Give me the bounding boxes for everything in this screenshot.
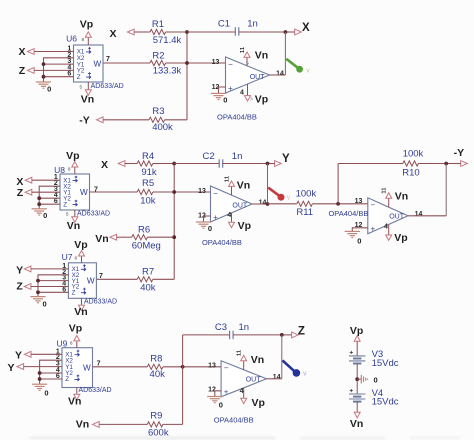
svg-text:Vp: Vp	[69, 322, 82, 334]
power symbol Vn (U8 pin 5)	[66, 210, 80, 232]
svg-text:Vn: Vn	[251, 354, 264, 366]
svg-text:600k: 600k	[148, 427, 169, 438]
svg-text:14: 14	[273, 374, 281, 381]
junction output-X node	[284, 30, 288, 34]
wire summing bus (integrator 2)	[173, 164, 175, 280]
svg-text:W: W	[87, 276, 95, 285]
svg-text:15Vdc: 15Vdc	[372, 397, 399, 408]
svg-text:Vp: Vp	[350, 325, 363, 337]
svg-text:OPA404/BB: OPA404/BB	[214, 415, 254, 424]
junction U7 pin3-gnd	[36, 279, 40, 283]
wire Vn port to R6	[117, 236, 132, 238]
svg-text:R2: R2	[152, 51, 164, 62]
svg-text:0: 0	[44, 389, 48, 398]
svg-text:7: 7	[99, 273, 103, 280]
port Y (integrator 2 output)	[275, 153, 290, 166]
ground 0 (U1 pin 12)	[211, 93, 227, 104]
svg-text:Vn: Vn	[67, 220, 80, 232]
power symbol Vp (U4 pin 4)	[240, 388, 265, 409]
svg-text:13: 13	[208, 362, 216, 369]
wire R1 to summing bus	[166, 31, 187, 33]
svg-text:Vn: Vn	[95, 233, 108, 245]
svg-text:Vp: Vp	[255, 93, 268, 105]
power symbol Vp (U7 pin 8)	[74, 239, 87, 263]
junction R8/bus node	[181, 365, 185, 369]
junction R1/C1 node	[185, 30, 189, 34]
svg-text:OUT: OUT	[389, 214, 405, 221]
wire R7 to summing bus 2	[153, 278, 174, 280]
svg-text:91k: 91k	[141, 167, 157, 178]
power symbol Vp (U6 pin 8)	[80, 18, 93, 45]
svg-text:0: 0	[357, 236, 361, 245]
ground 0 (U7 inputs)	[30, 297, 46, 309]
resistor R1 571.4k	[150, 19, 182, 46]
svg-text:−: −	[370, 201, 375, 210]
port Z (integrator 3 output)	[292, 326, 305, 338]
svg-text:V+: V+	[245, 59, 250, 65]
svg-text:U6: U6	[66, 34, 77, 44]
wire summing bus (integrator 3)	[182, 335, 184, 425]
wire bus to C3	[183, 334, 230, 336]
wire Y node to R11	[268, 203, 297, 205]
junction U6 pin6-gnd	[42, 75, 46, 79]
svg-text:R7: R7	[142, 267, 154, 278]
svg-text:C2: C2	[203, 151, 215, 162]
port Z (U8 Y1 input)	[17, 187, 32, 199]
wire U8 ground net (pins 2,4,6)	[39, 186, 60, 208]
svg-text:C1: C1	[218, 18, 230, 29]
voltage probe (X, green)	[286, 59, 310, 75]
svg-text:60Meg: 60Meg	[132, 240, 161, 251]
ground 0 (U2 pin 12)	[196, 222, 212, 233]
svg-text:AD633/AD: AD633/AD	[84, 298, 117, 305]
capacitor C3 1n	[215, 322, 249, 339]
wire op-amp U4 output to node	[267, 378, 282, 380]
wire output node to -Y port	[446, 163, 461, 165]
op-amp U3 OPA404/BB (inverter)	[328, 198, 422, 234]
resistor R3 400k	[149, 106, 173, 133]
wire op-amp U4 pin 12 to ground	[215, 391, 221, 397]
svg-text:Vn: Vn	[76, 418, 89, 430]
svg-text:Vp: Vp	[74, 239, 87, 251]
resistor R5 10k	[137, 178, 156, 206]
svg-text:R4: R4	[142, 151, 154, 162]
page artifact smudge	[30, 437, 460, 439]
wire Vp to V3	[356, 341, 358, 356]
junction U9 pin4-gnd	[38, 371, 42, 375]
power symbol Vp (U3 pin 4)	[384, 224, 408, 244]
svg-text:Vp: Vp	[80, 18, 93, 30]
svg-text:40k: 40k	[150, 369, 166, 380]
svg-text:R5: R5	[142, 178, 154, 189]
wire C2 to Y output node	[223, 163, 268, 165]
op-amp U1 OPA404/BB (integrator 1)	[212, 57, 284, 122]
power symbol Vn (U7 pin 5)	[74, 298, 87, 318]
wire output node to X port	[285, 31, 294, 33]
port Y (U9 X1 input)	[15, 349, 31, 361]
power symbol Vn (supply)	[350, 412, 363, 430]
wire R11 to op-amp U3 pin 13	[312, 203, 367, 205]
svg-text:Z: Z	[63, 201, 67, 208]
svg-text:Vn: Vn	[81, 93, 94, 105]
port Vn (to R9)	[76, 418, 99, 430]
ground 0 (supply mid, rotated)	[361, 375, 377, 385]
svg-text:R9: R9	[150, 411, 162, 422]
wire op-amp U1 output vertical	[284, 32, 286, 75]
op-amp U2 OPA404/BB (integrator 2)	[198, 186, 266, 247]
svg-text:AD633/AD: AD633/AD	[91, 83, 124, 90]
power symbol Vn (U4 pin 11)	[237, 349, 265, 370]
svg-text:−: −	[228, 60, 233, 69]
power symbol Vn (U2 pin 11)	[225, 175, 251, 195]
wire V3 to mid node	[356, 364, 358, 395]
svg-text:−: −	[213, 189, 218, 198]
svg-text:Z: Z	[19, 65, 26, 77]
wire Z port to U6 pin 4	[34, 69, 73, 71]
wire X port to R4	[125, 163, 137, 165]
svg-text:OUT: OUT	[250, 74, 266, 81]
wire Y port to U7 pin 1	[31, 268, 69, 270]
svg-text:133.3k: 133.3k	[153, 66, 182, 77]
ground 0 (U3 pin 12)	[345, 231, 362, 245]
svg-text:13: 13	[212, 59, 220, 66]
junction C3/Z node	[280, 333, 284, 337]
wire Y port to U9 pin 3	[24, 366, 62, 368]
power symbol Vn (U9 pin 5)	[68, 388, 81, 408]
multiplier U8	[54, 165, 110, 217]
power symbol Vp (supply)	[350, 325, 363, 341]
svg-text:R11: R11	[296, 207, 313, 218]
battery V4 15Vdc	[349, 388, 399, 408]
svg-text:R6: R6	[138, 224, 150, 235]
voltage probe (Y, red)	[268, 188, 291, 202]
multiplier U9	[56, 339, 112, 395]
wire Vn port to R9	[99, 423, 147, 425]
op-amp U4 OPA404/BB (integrator 3)	[208, 361, 281, 425]
svg-text:Z: Z	[298, 326, 305, 338]
svg-text:Vn: Vn	[237, 180, 250, 192]
svg-text:Z: Z	[65, 376, 69, 383]
svg-text:Y: Y	[16, 264, 23, 276]
wire X port to R1	[134, 31, 150, 33]
wire Z port to U8 pin 3	[32, 191, 60, 193]
wire R2 to op-amp U1 pin 13	[166, 62, 226, 64]
svg-text:14: 14	[259, 199, 267, 206]
svg-text:0: 0	[47, 85, 51, 94]
svg-text:0: 0	[208, 224, 212, 233]
svg-text:1n: 1n	[239, 322, 250, 333]
wire mid node to ground	[357, 378, 361, 380]
svg-text:+: +	[224, 388, 229, 397]
svg-text:Vp: Vp	[251, 397, 264, 409]
svg-text:Vp: Vp	[66, 150, 79, 162]
svg-text:−: −	[224, 364, 229, 373]
junction U9 pin6-gnd	[38, 377, 42, 381]
svg-text:11: 11	[381, 187, 387, 194]
svg-text:AD633/AD: AD633/AD	[77, 211, 110, 218]
svg-text:U9: U9	[56, 339, 67, 349]
svg-text:X: X	[109, 28, 116, 40]
junction U8 pin4-gnd	[37, 196, 41, 200]
port X (to R4)	[101, 159, 125, 171]
svg-text:10k: 10k	[140, 195, 156, 206]
svg-text:14: 14	[276, 70, 284, 77]
svg-text:13: 13	[198, 188, 206, 195]
port Y (U9 Y1 input)	[7, 362, 23, 374]
power symbol Vn (U6 pin 5)	[79, 82, 94, 105]
multiplier U7	[62, 252, 118, 305]
svg-text:Y: Y	[7, 362, 14, 374]
svg-text:Z: Z	[72, 290, 76, 297]
svg-text:Vn: Vn	[350, 418, 363, 430]
junction -Y node	[444, 162, 448, 166]
wire U7 W output to R7	[96, 278, 137, 280]
wire R5 to op-amp U2 pin 13	[153, 191, 211, 193]
wire op-amp U2 pin 12 to ground	[204, 216, 211, 222]
resistor R6 60Meg	[132, 224, 161, 251]
svg-text:W: W	[80, 188, 88, 197]
wire Y port to U9 pin 1	[31, 353, 62, 355]
wire R4 to summing bus 2	[153, 163, 174, 165]
svg-text:0: 0	[43, 211, 47, 220]
wire op-amp U3 output vertical	[445, 164, 447, 216]
svg-text:Vn: Vn	[395, 190, 408, 202]
svg-text:4: 4	[240, 90, 244, 97]
wire bus to C1	[187, 31, 235, 33]
svg-text:OUT: OUT	[232, 203, 248, 210]
wire output node to Z port	[282, 334, 292, 336]
svg-text:Z: Z	[16, 281, 23, 293]
svg-text:100k: 100k	[403, 148, 424, 159]
svg-text:C3: C3	[215, 322, 227, 333]
svg-text:Y: Y	[282, 153, 290, 165]
power symbol Vp (U9 pin 8)	[69, 322, 82, 347]
power symbol Vp (U8 pin 8)	[66, 150, 79, 174]
svg-text:14: 14	[415, 211, 423, 218]
port Z (U7 Y2 input)	[16, 281, 31, 293]
svg-text:7: 7	[106, 56, 110, 63]
svg-text:13: 13	[355, 198, 363, 205]
power symbol Vn (U1 pin 11)	[240, 46, 268, 66]
svg-text:Vn: Vn	[74, 306, 87, 318]
svg-text:1n: 1n	[232, 151, 243, 162]
wire op-amp U2 output vertical	[267, 164, 269, 205]
svg-text:W: W	[83, 363, 91, 372]
svg-text:15Vdc: 15Vdc	[372, 358, 399, 369]
svg-text:11: 11	[225, 175, 231, 182]
svg-text:Vp: Vp	[238, 220, 251, 232]
power symbol Vp (U2 pin 4)	[227, 212, 251, 232]
wire op-amp U3 output to node	[408, 215, 446, 217]
wire R3 to summing bus	[165, 119, 187, 121]
wire op-amp U1 output to node	[270, 74, 286, 76]
wire C3 to Z output node	[233, 334, 282, 336]
svg-text:11: 11	[237, 349, 243, 356]
port -Y (inverter output)	[454, 147, 468, 166]
ground 0 (U4 pin 12)	[207, 397, 223, 410]
svg-text:OPA404/BB: OPA404/BB	[328, 209, 368, 218]
svg-text:400k: 400k	[152, 122, 173, 133]
svg-text:X: X	[101, 159, 108, 171]
port Z (U6 Y2 input)	[19, 65, 34, 77]
capacitor C2 1n	[203, 151, 243, 168]
svg-text:11: 11	[240, 46, 246, 53]
resistor R10 100k	[402, 148, 423, 178]
svg-text:0: 0	[219, 401, 223, 410]
wire op-amp U1 pin 12 to ground	[219, 87, 226, 93]
wire U8 W output to R5	[90, 191, 138, 193]
capacitor C1 1n	[218, 18, 258, 35]
svg-text:Vn: Vn	[255, 49, 268, 61]
wire X port to U6 pin 1	[34, 51, 73, 53]
power symbol Vp (U1 pin 4)	[240, 84, 268, 105]
svg-text:X: X	[18, 46, 25, 58]
svg-text:U7: U7	[62, 252, 73, 262]
wire U9 W output to R8	[93, 366, 148, 368]
svg-text:R1: R1	[152, 19, 164, 30]
junction U8 pin6-gnd	[37, 202, 41, 206]
svg-text:40k: 40k	[140, 282, 156, 293]
svg-text:R3: R3	[152, 106, 164, 117]
resistor R7 40k	[137, 267, 156, 294]
port -Y (to R3)	[79, 115, 103, 127]
junction C2/Y node	[266, 162, 270, 166]
svg-text:X: X	[302, 22, 310, 34]
svg-text:OPA404/BB: OPA404/BB	[217, 113, 257, 122]
wire R6 to summing bus 2	[147, 236, 174, 238]
svg-text:Z: Z	[77, 74, 81, 81]
wire X port to U8 pin 1	[32, 179, 60, 181]
svg-text:0: 0	[374, 375, 378, 384]
svg-text:W: W	[94, 59, 102, 68]
svg-text:R10: R10	[402, 168, 419, 179]
wire Z port to U7 pin 4	[31, 286, 69, 288]
junction R4/C2 node	[172, 162, 176, 166]
wire U9 ground net (pins 2,4,6)	[40, 360, 62, 384]
junction R5/bus node	[172, 190, 176, 194]
wire bus to C2	[174, 163, 219, 165]
svg-text:+: +	[370, 225, 375, 234]
multiplier U6	[66, 34, 124, 91]
svg-text:U8: U8	[54, 165, 65, 175]
port Y (U7 X1 input)	[16, 264, 31, 276]
svg-text:V-: V-	[249, 96, 254, 101]
svg-text:+: +	[213, 213, 218, 222]
port X (to R1)	[109, 28, 134, 40]
svg-text:OUT: OUT	[246, 377, 262, 384]
resistor R11 100k	[296, 189, 317, 218]
wire R8 to op-amp U4 pin 13	[163, 366, 221, 368]
junction R6/bus node	[172, 235, 176, 239]
port X (integrator 1 output)	[295, 22, 310, 35]
power symbol Vn (U3 pin 11)	[381, 187, 408, 207]
ground 0 (U8 inputs)	[32, 209, 48, 220]
wire U6 ground net (pins 2,3,6)	[44, 58, 74, 82]
resistor R9 600k	[147, 411, 169, 439]
svg-text:571.4k: 571.4k	[153, 35, 182, 46]
svg-text:+: +	[228, 84, 233, 93]
wire output node to Y port	[268, 163, 275, 165]
svg-text:4: 4	[227, 212, 231, 219]
battery V3 15Vdc	[349, 349, 399, 369]
svg-text:-Y: -Y	[79, 115, 90, 127]
wire op-amp U2 output to node	[252, 203, 268, 205]
junction supply mid node	[355, 377, 359, 381]
svg-text:4: 4	[384, 224, 388, 231]
port X (U6 X1 input)	[18, 46, 34, 58]
resistor R2 133.3k	[150, 51, 182, 77]
junction U7 pin6-gnd	[36, 290, 40, 294]
svg-text:0: 0	[43, 300, 47, 309]
svg-text:AD633/AD: AD633/AD	[79, 387, 112, 394]
svg-text:R8: R8	[150, 354, 162, 365]
wire V4 to Vn	[356, 402, 358, 413]
svg-text:100k: 100k	[296, 189, 317, 200]
svg-text:OPA404/BB: OPA404/BB	[202, 238, 242, 247]
svg-text:Z: Z	[17, 187, 24, 199]
wire R9 to summing bus 3	[163, 423, 183, 425]
wire U7 ground net (pins 2,3,6)	[38, 275, 68, 297]
resistor R4 91k	[137, 151, 157, 178]
wire bus to R10	[338, 163, 403, 165]
wire -Y port to R3	[103, 119, 149, 121]
wire op-amp U3 pin 12 to ground	[352, 228, 368, 231]
voltage probe (Z, blue)	[283, 360, 308, 377]
wire R10 branch vertical	[337, 164, 339, 204]
svg-text:4: 4	[240, 388, 244, 395]
svg-text:Vn: Vn	[68, 395, 81, 407]
svg-text:-Y: -Y	[454, 147, 465, 159]
wire C1 to output node	[239, 31, 286, 33]
junction U6 pin3-gnd	[42, 62, 46, 66]
junction R10/bus node	[336, 202, 340, 206]
svg-text:1n: 1n	[247, 18, 258, 29]
wire R10 to -Y output node	[418, 163, 446, 165]
svg-text:Y: Y	[15, 349, 22, 361]
port Vn (to R6)	[95, 233, 116, 245]
junction U2 output node	[266, 202, 270, 206]
junction R2/bus node	[185, 61, 189, 65]
wire op-amp U4 output vertical	[281, 335, 283, 379]
wire summing bus (top integrator)	[186, 32, 188, 120]
ground 0 (U6 inputs)	[36, 82, 51, 94]
port X (U8 X1 input)	[16, 176, 31, 188]
resistor R8 40k	[147, 354, 165, 381]
ground 0 (U9 inputs)	[32, 384, 48, 397]
wire U6 W output to R2	[103, 62, 150, 64]
svg-text:Vp: Vp	[394, 232, 407, 244]
svg-text:0: 0	[223, 96, 227, 105]
